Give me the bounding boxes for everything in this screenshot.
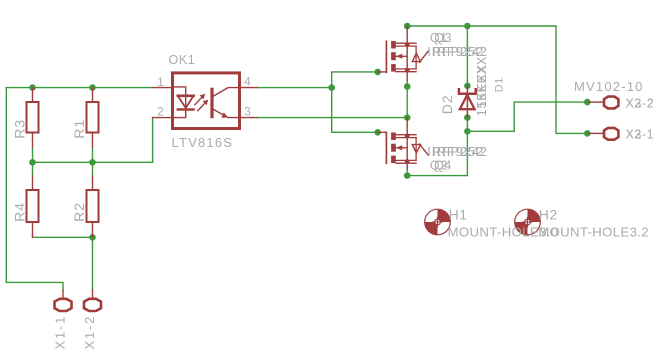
- wire X2-2 branch: [467, 102, 587, 131]
- body diode: [415, 46, 417, 69]
- wire OK1 pin3 to trunk: [257, 117, 407, 119]
- junction X2-2 branch: [464, 128, 471, 135]
- svg-text:OK1: OK1: [169, 53, 196, 67]
- source lead: [396, 160, 416, 163]
- junction D2 top rail: [464, 23, 471, 30]
- svg-text:R1: R1: [71, 119, 87, 139]
- phototransistor inside OK1: [210, 88, 213, 119]
- svg-text:X1-1: X1-1: [52, 315, 67, 350]
- svg-text:D2: D2: [439, 94, 455, 114]
- wire D2 top drop: [466, 26, 468, 86]
- transistor Q2 Q4 MOSFET bottom: [378, 118, 428, 169]
- junction X2-1 pad: [584, 130, 591, 137]
- pin 4 stub: [240, 87, 258, 89]
- source lead: [396, 69, 416, 72]
- wire R1 bottom to rail: [92, 147, 94, 163]
- light arrows: [195, 95, 204, 105]
- junction R3 top: [29, 84, 36, 91]
- junction gate Q2: [374, 129, 381, 136]
- wire net N1 top-left rail to OK1 pin 1: [6, 87, 152, 89]
- junction Q1 source: [404, 83, 411, 90]
- svg-text:IRF9242: IRF9242: [432, 144, 487, 159]
- svg-text:15KEXX: 15KEXX: [475, 56, 489, 108]
- channel bars: [391, 41, 396, 49]
- resistor R1: [87, 88, 99, 147]
- junction pin4 gate split: [328, 84, 335, 91]
- substrate arrow: [396, 147, 407, 149]
- wire middle rail to OK1 pin 2: [33, 118, 153, 163]
- wire OK1 pin4 to gates split: [257, 72, 378, 132]
- junction gate Q1: [374, 69, 381, 76]
- internal vertical: [406, 136, 408, 162]
- svg-text:H2: H2: [539, 206, 558, 222]
- svg-text:R3: R3: [11, 119, 27, 139]
- pin 1 stub: [152, 87, 173, 89]
- mount hole H2: [515, 209, 541, 235]
- svg-text:MOUNT-HOLE3.2: MOUNT-HOLE3.2: [538, 224, 649, 239]
- gate bar: [385, 41, 387, 72]
- wire bottom rail FET source to D2: [407, 169, 467, 176]
- svg-text:3: 3: [244, 106, 250, 118]
- svg-text:MV102-10: MV102-10: [574, 79, 644, 94]
- drain lead: [406, 118, 408, 136]
- junction R1 bottom: [89, 159, 96, 166]
- wire top rail to X2-1: [407, 26, 587, 133]
- junction R2 bottom: [89, 234, 96, 241]
- gate bar: [385, 132, 387, 163]
- connector pad X2-1 X3-1: [589, 128, 618, 140]
- junction drain Q1 top rail: [404, 23, 411, 30]
- wire D2 anode down to bottom rail: [466, 114, 468, 176]
- junction Q2 source bottom rail: [404, 172, 411, 179]
- diode D1 D2 TVS: [459, 86, 476, 118]
- svg-text:4: 4: [244, 77, 251, 89]
- junction R3 bottom: [29, 159, 36, 166]
- junction Q2 drain pin3: [404, 114, 411, 121]
- wire bottom rail R4-R2: [33, 236, 93, 238]
- gate lead: [378, 71, 387, 73]
- substrate arrow: [396, 55, 407, 57]
- junction D2 anode: [464, 114, 471, 121]
- resistor R3: [27, 88, 39, 147]
- resistor R2: [87, 176, 99, 237]
- svg-text:Q4: Q4: [434, 159, 452, 173]
- svg-text:D1: D1: [493, 77, 505, 92]
- mount hole H1: [425, 209, 451, 235]
- connector pad X2-2 X3-2: [589, 97, 618, 109]
- svg-text:X3-2: X3-2: [626, 97, 655, 111]
- pin 2 stub: [153, 117, 173, 119]
- svg-text:X1-2: X1-2: [82, 315, 97, 350]
- junction D2 cathode: [464, 83, 471, 90]
- channel bars: [391, 133, 396, 141]
- LED inside OK1: [173, 87, 186, 94]
- resistor R4: [27, 176, 39, 237]
- svg-text:1: 1: [157, 77, 163, 89]
- svg-text:H1: H1: [449, 206, 468, 222]
- junction R1 top: [89, 84, 96, 91]
- wire R4 top from rail: [32, 162, 34, 176]
- svg-text:2: 2: [157, 107, 163, 119]
- wire trunk between FETs: [406, 81, 408, 118]
- drain lead: [406, 26, 408, 45]
- pin 3 stub: [240, 117, 258, 119]
- connector pad X1-2: [84, 290, 101, 311]
- svg-text:X3-1: X3-1: [626, 127, 655, 141]
- body diode: [415, 138, 417, 161]
- transistor Q1 Q3 MOSFET top: [378, 26, 428, 81]
- svg-text:Q3: Q3: [434, 31, 452, 45]
- wire R3 bottom to rail: [32, 147, 34, 163]
- internal vertical: [406, 45, 408, 71]
- junction X2-2 pad: [584, 99, 591, 106]
- svg-text:R2: R2: [71, 202, 87, 222]
- wire X1-2 drop: [92, 237, 94, 290]
- svg-text:R4: R4: [11, 202, 27, 222]
- connector pad X1-1: [55, 290, 72, 311]
- wire left vertical down to X1-1: [6, 88, 63, 290]
- svg-text:LTV816S: LTV816S: [172, 135, 234, 150]
- op-amp OK1 optocoupler body: [152, 73, 257, 129]
- gate lead: [378, 131, 387, 133]
- wire R2 top from rail: [92, 162, 94, 176]
